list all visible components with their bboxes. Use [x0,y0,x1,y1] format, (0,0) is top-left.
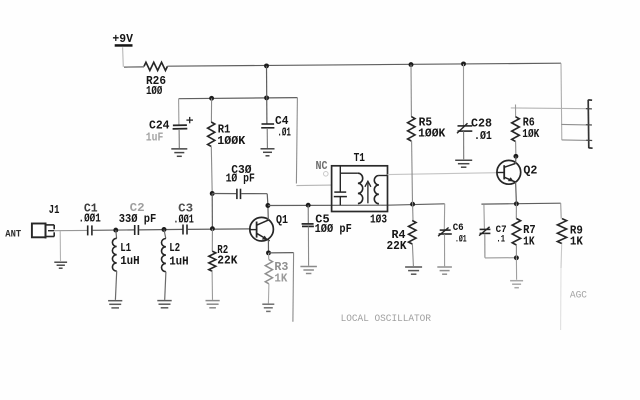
svg-text:Q2: Q2 [523,165,537,178]
svg-text:ANT: ANT [5,229,21,241]
svg-text:1ØK: 1ØK [522,128,539,141]
svg-text:+9V: +9V [112,32,133,46]
svg-text:.ØØ1: .ØØ1 [173,214,193,227]
svg-text:Q1: Q1 [276,214,288,227]
svg-text:1ØØ pF: 1ØØ pF [315,223,352,236]
svg-text:1uF: 1uF [146,132,164,145]
svg-text:33Ø pF: 33Ø pF [119,213,157,226]
svg-text:AGC: AGC [570,289,587,301]
svg-text:.1: .1 [496,234,505,245]
svg-text:1ØØK: 1ØØK [217,135,245,148]
svg-text:1K: 1K [523,235,535,248]
svg-text:J1: J1 [49,204,60,217]
svg-text:C28: C28 [471,118,492,131]
svg-text:.Ø1: .Ø1 [455,233,467,245]
svg-text:L2: L2 [169,242,180,255]
svg-text:L1: L1 [120,242,131,255]
svg-text:C6: C6 [453,223,464,234]
svg-text:C24: C24 [149,119,170,132]
svg-text:.Ø1: .Ø1 [277,127,291,140]
svg-text:1uH: 1uH [169,255,189,268]
svg-text:1Ø pF: 1Ø pF [226,173,255,186]
svg-text:LOCAL OSCILLATOR: LOCAL OSCILLATOR [341,313,432,325]
svg-text:1Ø3: 1Ø3 [370,214,387,227]
svg-text:22K: 22K [217,255,237,268]
svg-text:22K: 22K [387,240,407,253]
svg-text:NC: NC [316,160,328,173]
svg-text:.Ø1: .Ø1 [474,130,492,143]
svg-text:1ØØ: 1ØØ [146,85,162,98]
svg-text:1uH: 1uH [120,255,140,268]
svg-text:.ØØ1: .ØØ1 [79,213,101,226]
svg-text:1K: 1K [570,236,583,249]
svg-text:1K: 1K [274,273,287,286]
svg-text:T1: T1 [354,152,365,165]
svg-text:1ØØK: 1ØØK [418,128,445,141]
